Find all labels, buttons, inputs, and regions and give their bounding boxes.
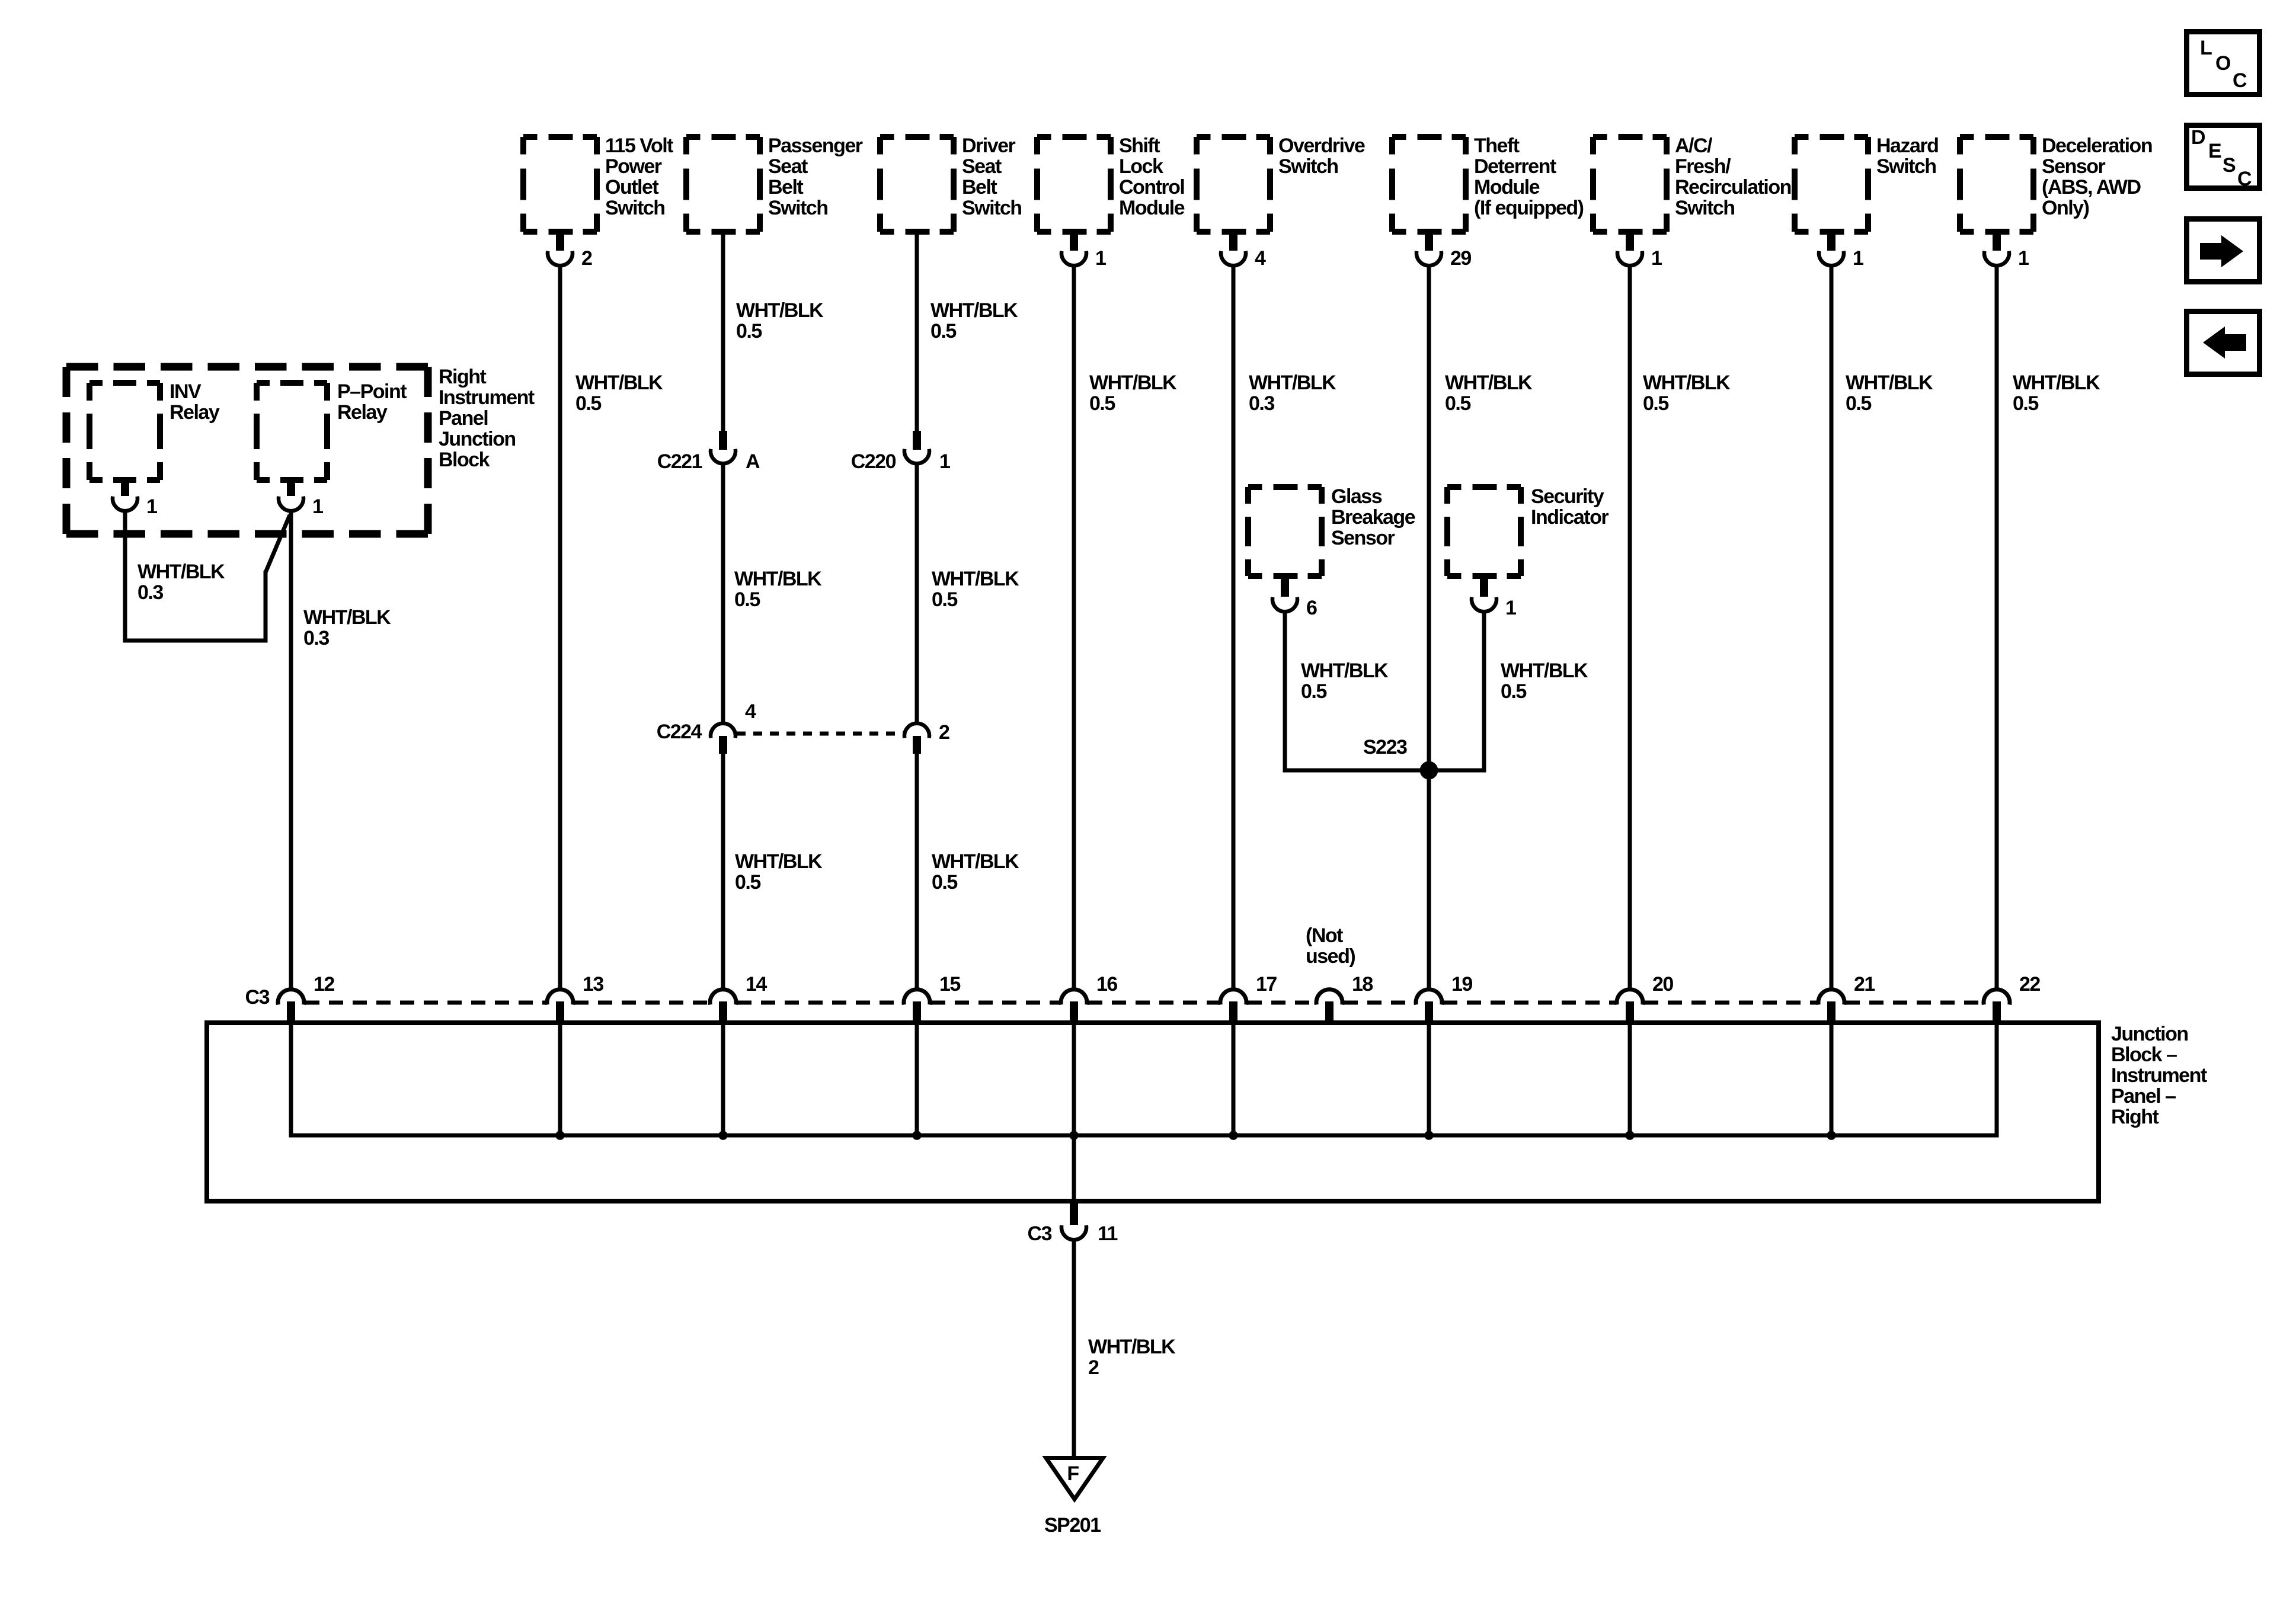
- wire C3 pin 21 into junction block: [1830, 1025, 1834, 1135]
- wire C3 pin 20 into junction block: [1628, 1025, 1632, 1135]
- wire Security Indicator down: [1482, 612, 1486, 773]
- svg-text:0.5: 0.5: [736, 320, 762, 343]
- svg-text:21: 21: [1854, 973, 1875, 996]
- svg-text:WHT/BLK: WHT/BLK: [1846, 372, 1933, 394]
- svg-text:Overdrive: Overdrive: [1278, 135, 1365, 157]
- svg-text:0.5: 0.5: [932, 588, 957, 611]
- junction dot bus at pin 21: [1827, 1131, 1835, 1140]
- svg-text:15: 15: [939, 973, 960, 996]
- svg-text:Switch: Switch: [1675, 197, 1735, 219]
- pin 6 of Glass Breakage Sensor (stub + connector cup): [1281, 575, 1289, 597]
- wire Driver Seat Belt Switch down to C220: [915, 232, 919, 433]
- dashed connector line C3 between pins 18 and 19: [1344, 1001, 1415, 1005]
- svg-text:Relay: Relay: [170, 401, 220, 424]
- wire Passenger Seat Belt Switch down to C221: [721, 232, 725, 433]
- wire C3 pin 19 into junction block: [1427, 1025, 1431, 1135]
- wire C3 pin 14 into junction block: [721, 1025, 725, 1135]
- pin 29 of Theft (stub + connector cup): [1425, 231, 1433, 251]
- wire INV Relay horizontal run to the right: [123, 639, 268, 643]
- wire C3 pin 13 into junction block: [558, 1025, 562, 1135]
- wire C224 pin 4 down to C3 pin 14: [721, 754, 725, 988]
- svg-text:17: 17: [1256, 973, 1277, 996]
- svg-text:Switch: Switch: [1876, 155, 1936, 178]
- svg-text:Instrument: Instrument: [2111, 1064, 2207, 1087]
- svg-text:Module: Module: [1474, 176, 1540, 199]
- svg-text:0.3: 0.3: [137, 581, 163, 604]
- svg-text:WHT/BLK: WHT/BLK: [736, 299, 824, 322]
- svg-text:Belt: Belt: [768, 176, 803, 199]
- junction dot bus at pin 19: [1424, 1131, 1433, 1140]
- dashed connector line C3 between pins 14 and 15: [737, 1001, 903, 1005]
- svg-text:0.5: 0.5: [1643, 392, 1668, 415]
- component 115 Volt Power Outlet Switch (dashed box): [523, 134, 538, 140]
- svg-text:Block: Block: [439, 449, 490, 471]
- svg-text:Deceleration: Deceleration: [2042, 135, 2152, 157]
- junction dot bus at pin 16: [1069, 1131, 1078, 1140]
- wire C3 pin 12 into junction block: [289, 1025, 293, 1135]
- wire from INV Relay pin 1 down: [123, 511, 127, 641]
- svg-text:14: 14: [746, 973, 767, 996]
- svg-text:Block –: Block –: [2111, 1044, 2177, 1066]
- svg-text:18: 18: [1352, 973, 1373, 996]
- pin 1 of Hazard (stub + connector cup): [1827, 231, 1835, 251]
- svg-text:0.5: 0.5: [1501, 680, 1526, 703]
- svg-text:1: 1: [1651, 247, 1662, 270]
- svg-text:Power: Power: [605, 155, 662, 178]
- junction dot bus at pin 13: [555, 1131, 564, 1140]
- svg-text:D: D: [2191, 126, 2205, 149]
- svg-text:WHT/BLK: WHT/BLK: [137, 561, 225, 583]
- svg-text:WHT/BLK: WHT/BLK: [1501, 660, 1588, 682]
- component Shift Lock Control Module (dashed box): [1037, 134, 1051, 140]
- svg-text:SP201: SP201: [1044, 1514, 1101, 1537]
- wire C220 to C224 pin 2: [915, 464, 919, 724]
- svg-text:Recirculation: Recirculation: [1675, 176, 1791, 199]
- svg-text:WHT/BLK: WHT/BLK: [1445, 372, 1533, 394]
- connector C3 pin 11 (stub + cup below junction block): [1070, 1201, 1078, 1225]
- svg-text:4: 4: [1255, 247, 1266, 270]
- svg-text:1: 1: [1095, 247, 1106, 270]
- svg-text:S: S: [2223, 154, 2236, 177]
- svg-text:Driver: Driver: [962, 135, 1016, 157]
- svg-text:0.5: 0.5: [735, 871, 760, 894]
- svg-text:Indicator: Indicator: [1531, 506, 1609, 529]
- svg-text:WHT/BLK: WHT/BLK: [1088, 1336, 1176, 1358]
- relay P–Point Relay (dashed box): [257, 380, 270, 386]
- svg-text:1: 1: [939, 450, 950, 473]
- svg-text:C224: C224: [657, 721, 702, 743]
- svg-text:Sensor: Sensor: [1331, 527, 1395, 549]
- dashed connector line C3 between pins 16 and 17: [1088, 1001, 1219, 1005]
- wire C3 pin 11 down to ground SP201: [1072, 1240, 1076, 1456]
- component Security Indicator (dashed box): [1447, 484, 1462, 490]
- svg-text:used): used): [1306, 945, 1355, 968]
- wire Hazard Switch to C3 pin 21: [1830, 265, 1834, 988]
- pin 1 of INV Relay (stub + connector cup): [121, 479, 129, 496]
- wire C3 pin 22 into junction block: [1995, 1025, 1999, 1135]
- svg-text:Junction: Junction: [439, 428, 516, 450]
- wire bus to C3 pin 11 (down inside junction block): [1072, 1135, 1076, 1202]
- svg-text:F: F: [1067, 1462, 1079, 1485]
- wire Glass Breakage Sensor down: [1283, 612, 1287, 773]
- svg-text:C221: C221: [657, 450, 702, 473]
- svg-text:Shift: Shift: [1119, 135, 1160, 157]
- connector C224 pin 2 (inline, cup over pin): [904, 724, 929, 738]
- junction S223 (splice dot): [1420, 761, 1438, 780]
- connector C3 pin 17 (cup + stub): [1220, 990, 1246, 1005]
- svg-text:11: 11: [1098, 1222, 1118, 1245]
- dashed connector line C3 between pins 21 and 22: [1846, 1001, 1982, 1005]
- component Theft Deterrent Module (If equipped) (dashed box): [1392, 134, 1406, 140]
- wire Deceleration Sensor to C3 pin 22: [1995, 265, 1999, 988]
- dashed connector line C3 between pins 15 and 16: [931, 1001, 1060, 1005]
- junction dot bus at pin 14: [718, 1131, 727, 1140]
- legend box LOC: [2187, 32, 2260, 95]
- svg-text:22: 22: [2019, 973, 2040, 996]
- svg-text:A: A: [746, 450, 760, 473]
- connector C3 pin 14 (cup + stub): [710, 990, 736, 1005]
- connector C3 pin 16 (cup + stub): [1061, 990, 1087, 1005]
- svg-text:0.5: 0.5: [932, 871, 957, 894]
- svg-text:Seat: Seat: [962, 155, 1002, 178]
- svg-text:Sensor: Sensor: [2042, 155, 2106, 178]
- wire INV Relay diagonal joining P-Point wire: [266, 515, 290, 572]
- component Deceleration Sensor (ABS, AWD Only) (dashed box): [1960, 134, 1974, 140]
- connector C3 pin 13 (cup + stub): [547, 990, 573, 1005]
- svg-text:Instrument: Instrument: [439, 386, 535, 409]
- svg-text:19: 19: [1451, 973, 1472, 996]
- component Overdrive Switch (dashed box): [1197, 134, 1211, 140]
- svg-text:115 Volt: 115 Volt: [605, 135, 673, 157]
- component Glass Breakage Sensor (dashed box): [1248, 484, 1262, 490]
- junction dot bus at pin 20: [1625, 1131, 1634, 1140]
- svg-text:WHT/BLK: WHT/BLK: [575, 372, 663, 394]
- svg-text:Panel: Panel: [439, 407, 488, 430]
- connector C3 pin 19 (cup + stub): [1416, 990, 1442, 1005]
- svg-text:Fresh/: Fresh/: [1675, 155, 1731, 178]
- wire Shift Lock Control Module to C3 pin 16: [1072, 265, 1076, 988]
- component Hazard Switch (dashed box): [1795, 134, 1809, 140]
- pin 4 of Overdrive (stub + connector cup): [1229, 231, 1237, 251]
- svg-text:P–Point: P–Point: [337, 380, 407, 403]
- wire splice run Glass Breakage to Security Indicator: [1283, 769, 1486, 773]
- svg-text:20: 20: [1652, 973, 1673, 996]
- svg-text:E: E: [2208, 140, 2221, 162]
- connector C3 pin 20 (cup + stub): [1617, 990, 1643, 1005]
- pin 1 of Security Indicator (stub + connector cup): [1480, 575, 1488, 597]
- wire 115 Volt Power Outlet Switch to C3 pin 13: [558, 265, 562, 988]
- svg-text:Glass: Glass: [1331, 485, 1382, 508]
- svg-text:0.3: 0.3: [303, 627, 329, 649]
- svg-text:WHT/BLK: WHT/BLK: [734, 568, 822, 590]
- svg-text:4: 4: [745, 700, 756, 723]
- svg-text:0.5: 0.5: [1301, 680, 1326, 703]
- svg-text:WHT/BLK: WHT/BLK: [735, 850, 823, 873]
- pin 1 of Shift (stub + connector cup): [1070, 231, 1078, 251]
- svg-text:Seat: Seat: [768, 155, 808, 178]
- wire Overdrive Switch to C3 pin 17: [1232, 265, 1236, 988]
- dashed connector line C3 between pins 13 and 14: [574, 1001, 709, 1005]
- connector C3 pin 18 (cup + stub): [1316, 990, 1342, 1005]
- svg-text:Belt: Belt: [962, 176, 997, 199]
- svg-text:Control: Control: [1119, 176, 1184, 199]
- svg-text:Outlet: Outlet: [605, 176, 658, 199]
- connector C3 pin 15 (cup + stub): [904, 990, 930, 1005]
- svg-text:Hazard: Hazard: [1876, 135, 1938, 157]
- svg-text:Only): Only): [2042, 197, 2089, 219]
- connector C3 pin 12 (cup + stub): [278, 990, 304, 1005]
- svg-text:WHT/BLK: WHT/BLK: [2013, 372, 2100, 394]
- svg-text:INV: INV: [170, 380, 202, 403]
- svg-text:1: 1: [146, 495, 157, 518]
- wire Theft Deterrent Module to C3 pin 19 (through S223): [1427, 265, 1431, 988]
- svg-text:1: 1: [312, 495, 323, 518]
- svg-text:Panel –: Panel –: [2111, 1085, 2176, 1108]
- svg-text:0.5: 0.5: [2013, 392, 2038, 415]
- svg-text:13: 13: [583, 973, 603, 996]
- svg-text:Right: Right: [439, 366, 487, 388]
- svg-text:(Not: (Not: [1306, 924, 1343, 947]
- svg-text:Right: Right: [2111, 1106, 2159, 1128]
- svg-text:29: 29: [1450, 247, 1471, 270]
- svg-text:Junction: Junction: [2111, 1023, 2188, 1045]
- connector C221 pin A (inline, stub + cup): [719, 431, 727, 450]
- dashed connector line C3 between pins 20 and 21: [1644, 1001, 1817, 1005]
- svg-text:0.5: 0.5: [930, 320, 956, 343]
- dashed link C224 between pins 4 and 2: [737, 732, 903, 736]
- svg-text:Security: Security: [1531, 485, 1604, 508]
- svg-text:WHT/BLK: WHT/BLK: [1643, 372, 1731, 394]
- Right Instrument Panel Junction Block (large dashed box): [66, 363, 428, 371]
- wire C224 pin 2 down to C3 pin 15: [915, 754, 919, 988]
- wire C221 to C224: [721, 464, 725, 724]
- svg-text:Deterrent: Deterrent: [1474, 155, 1556, 178]
- ground SP201 (triangle ground symbol with F): [1046, 1458, 1103, 1500]
- svg-text:0.5: 0.5: [1089, 392, 1115, 415]
- svg-text:L: L: [2200, 37, 2212, 59]
- legend box arrow left: [2187, 312, 2260, 375]
- svg-text:(ABS, AWD: (ABS, AWD: [2042, 176, 2141, 199]
- svg-text:12: 12: [314, 973, 334, 996]
- connector C224 pin 4 (inline, cup over pin): [711, 724, 736, 738]
- svg-text:(If equipped): (If equipped): [1474, 197, 1584, 219]
- component Passenger Seat Belt Switch (dashed box): [686, 134, 701, 140]
- svg-text:WHT/BLK: WHT/BLK: [1089, 372, 1177, 394]
- junction block internal bus wire: [289, 1134, 1999, 1138]
- svg-text:WHT/BLK: WHT/BLK: [932, 568, 1019, 590]
- junction dot bus at pin 17: [1229, 1131, 1237, 1140]
- pin 1 of Deceleration (stub + connector cup): [1993, 231, 2001, 251]
- svg-text:1: 1: [2018, 247, 2029, 270]
- svg-text:Passenger: Passenger: [768, 135, 863, 157]
- svg-text:6: 6: [1306, 597, 1317, 619]
- connector C220 pin 1 (inline, stub + cup): [913, 431, 921, 450]
- svg-text:16: 16: [1096, 973, 1117, 996]
- Junction Block - Instrument Panel - Right (solid box): [207, 1023, 2099, 1201]
- svg-text:C: C: [2233, 69, 2247, 92]
- dashed connector line C3 between pins 17 and 18: [1248, 1001, 1315, 1005]
- svg-text:S223: S223: [1363, 736, 1407, 758]
- svg-text:Relay: Relay: [337, 401, 388, 424]
- wire from P-Point Relay pin 1 down to C3 pin 12: [289, 511, 293, 988]
- wire C3 pin 15 into junction block: [915, 1025, 919, 1135]
- relay INV Relay (dashed box): [89, 380, 103, 386]
- pin 2 of 115 Volt (stub + connector cup): [556, 231, 564, 251]
- svg-text:0.5: 0.5: [1846, 392, 1871, 415]
- svg-text:Lock: Lock: [1119, 155, 1163, 178]
- dashed connector line C3 between pins 19 and 20: [1443, 1001, 1616, 1005]
- svg-text:Switch: Switch: [768, 197, 828, 219]
- svg-text:0.3: 0.3: [1249, 392, 1274, 415]
- svg-text:O: O: [2215, 52, 2231, 75]
- legend box DESC: [2187, 126, 2260, 188]
- svg-text:Switch: Switch: [962, 197, 1022, 219]
- svg-text:Switch: Switch: [605, 197, 665, 219]
- pin 1 of A/C/ (stub + connector cup): [1626, 231, 1634, 251]
- dashed connector line C3 between pins 12 and 13: [305, 1001, 546, 1005]
- component Driver Seat Belt Switch (dashed box): [880, 134, 894, 140]
- svg-text:C: C: [2237, 168, 2252, 190]
- junction dot bus at pin 15: [912, 1131, 921, 1140]
- svg-text:C3: C3: [1028, 1222, 1052, 1245]
- svg-text:1: 1: [1505, 597, 1516, 619]
- connector C3 pin 22 (cup + stub): [1984, 990, 2010, 1005]
- svg-text:2: 2: [1088, 1356, 1099, 1379]
- svg-text:2: 2: [581, 247, 592, 270]
- svg-text:Switch: Switch: [1278, 155, 1338, 178]
- wire INV Relay vertical rise: [264, 571, 268, 641]
- svg-text:A/C/: A/C/: [1675, 135, 1713, 157]
- svg-text:Theft: Theft: [1474, 135, 1520, 157]
- svg-text:WHT/BLK: WHT/BLK: [930, 299, 1018, 322]
- svg-text:0.5: 0.5: [734, 588, 760, 611]
- wire C3 pin 16 into junction block: [1072, 1025, 1076, 1135]
- connector C3 pin 21 (cup + stub): [1818, 990, 1844, 1005]
- svg-text:WHT/BLK: WHT/BLK: [1249, 372, 1336, 394]
- svg-text:WHT/BLK: WHT/BLK: [932, 850, 1019, 873]
- svg-text:WHT/BLK: WHT/BLK: [1301, 660, 1389, 682]
- svg-text:Module: Module: [1119, 197, 1185, 219]
- svg-text:WHT/BLK: WHT/BLK: [303, 606, 391, 629]
- svg-text:C3: C3: [245, 986, 270, 1009]
- svg-text:0.5: 0.5: [1445, 392, 1470, 415]
- svg-text:1: 1: [1853, 247, 1863, 270]
- legend box arrow right: [2187, 219, 2260, 282]
- svg-text:Breakage: Breakage: [1331, 506, 1415, 529]
- svg-text:C220: C220: [851, 450, 896, 473]
- svg-text:0.5: 0.5: [575, 392, 601, 415]
- pin 1 of P-Point Relay (stub + connector cup): [287, 479, 295, 496]
- svg-text:2: 2: [939, 721, 949, 744]
- component A/C/ Fresh/ Recirculation Switch (dashed box): [1593, 134, 1607, 140]
- wire C3 pin 17 into junction block: [1232, 1025, 1236, 1135]
- wire A/C/Fresh/Recirculation Switch to C3 pin 20: [1628, 265, 1632, 988]
